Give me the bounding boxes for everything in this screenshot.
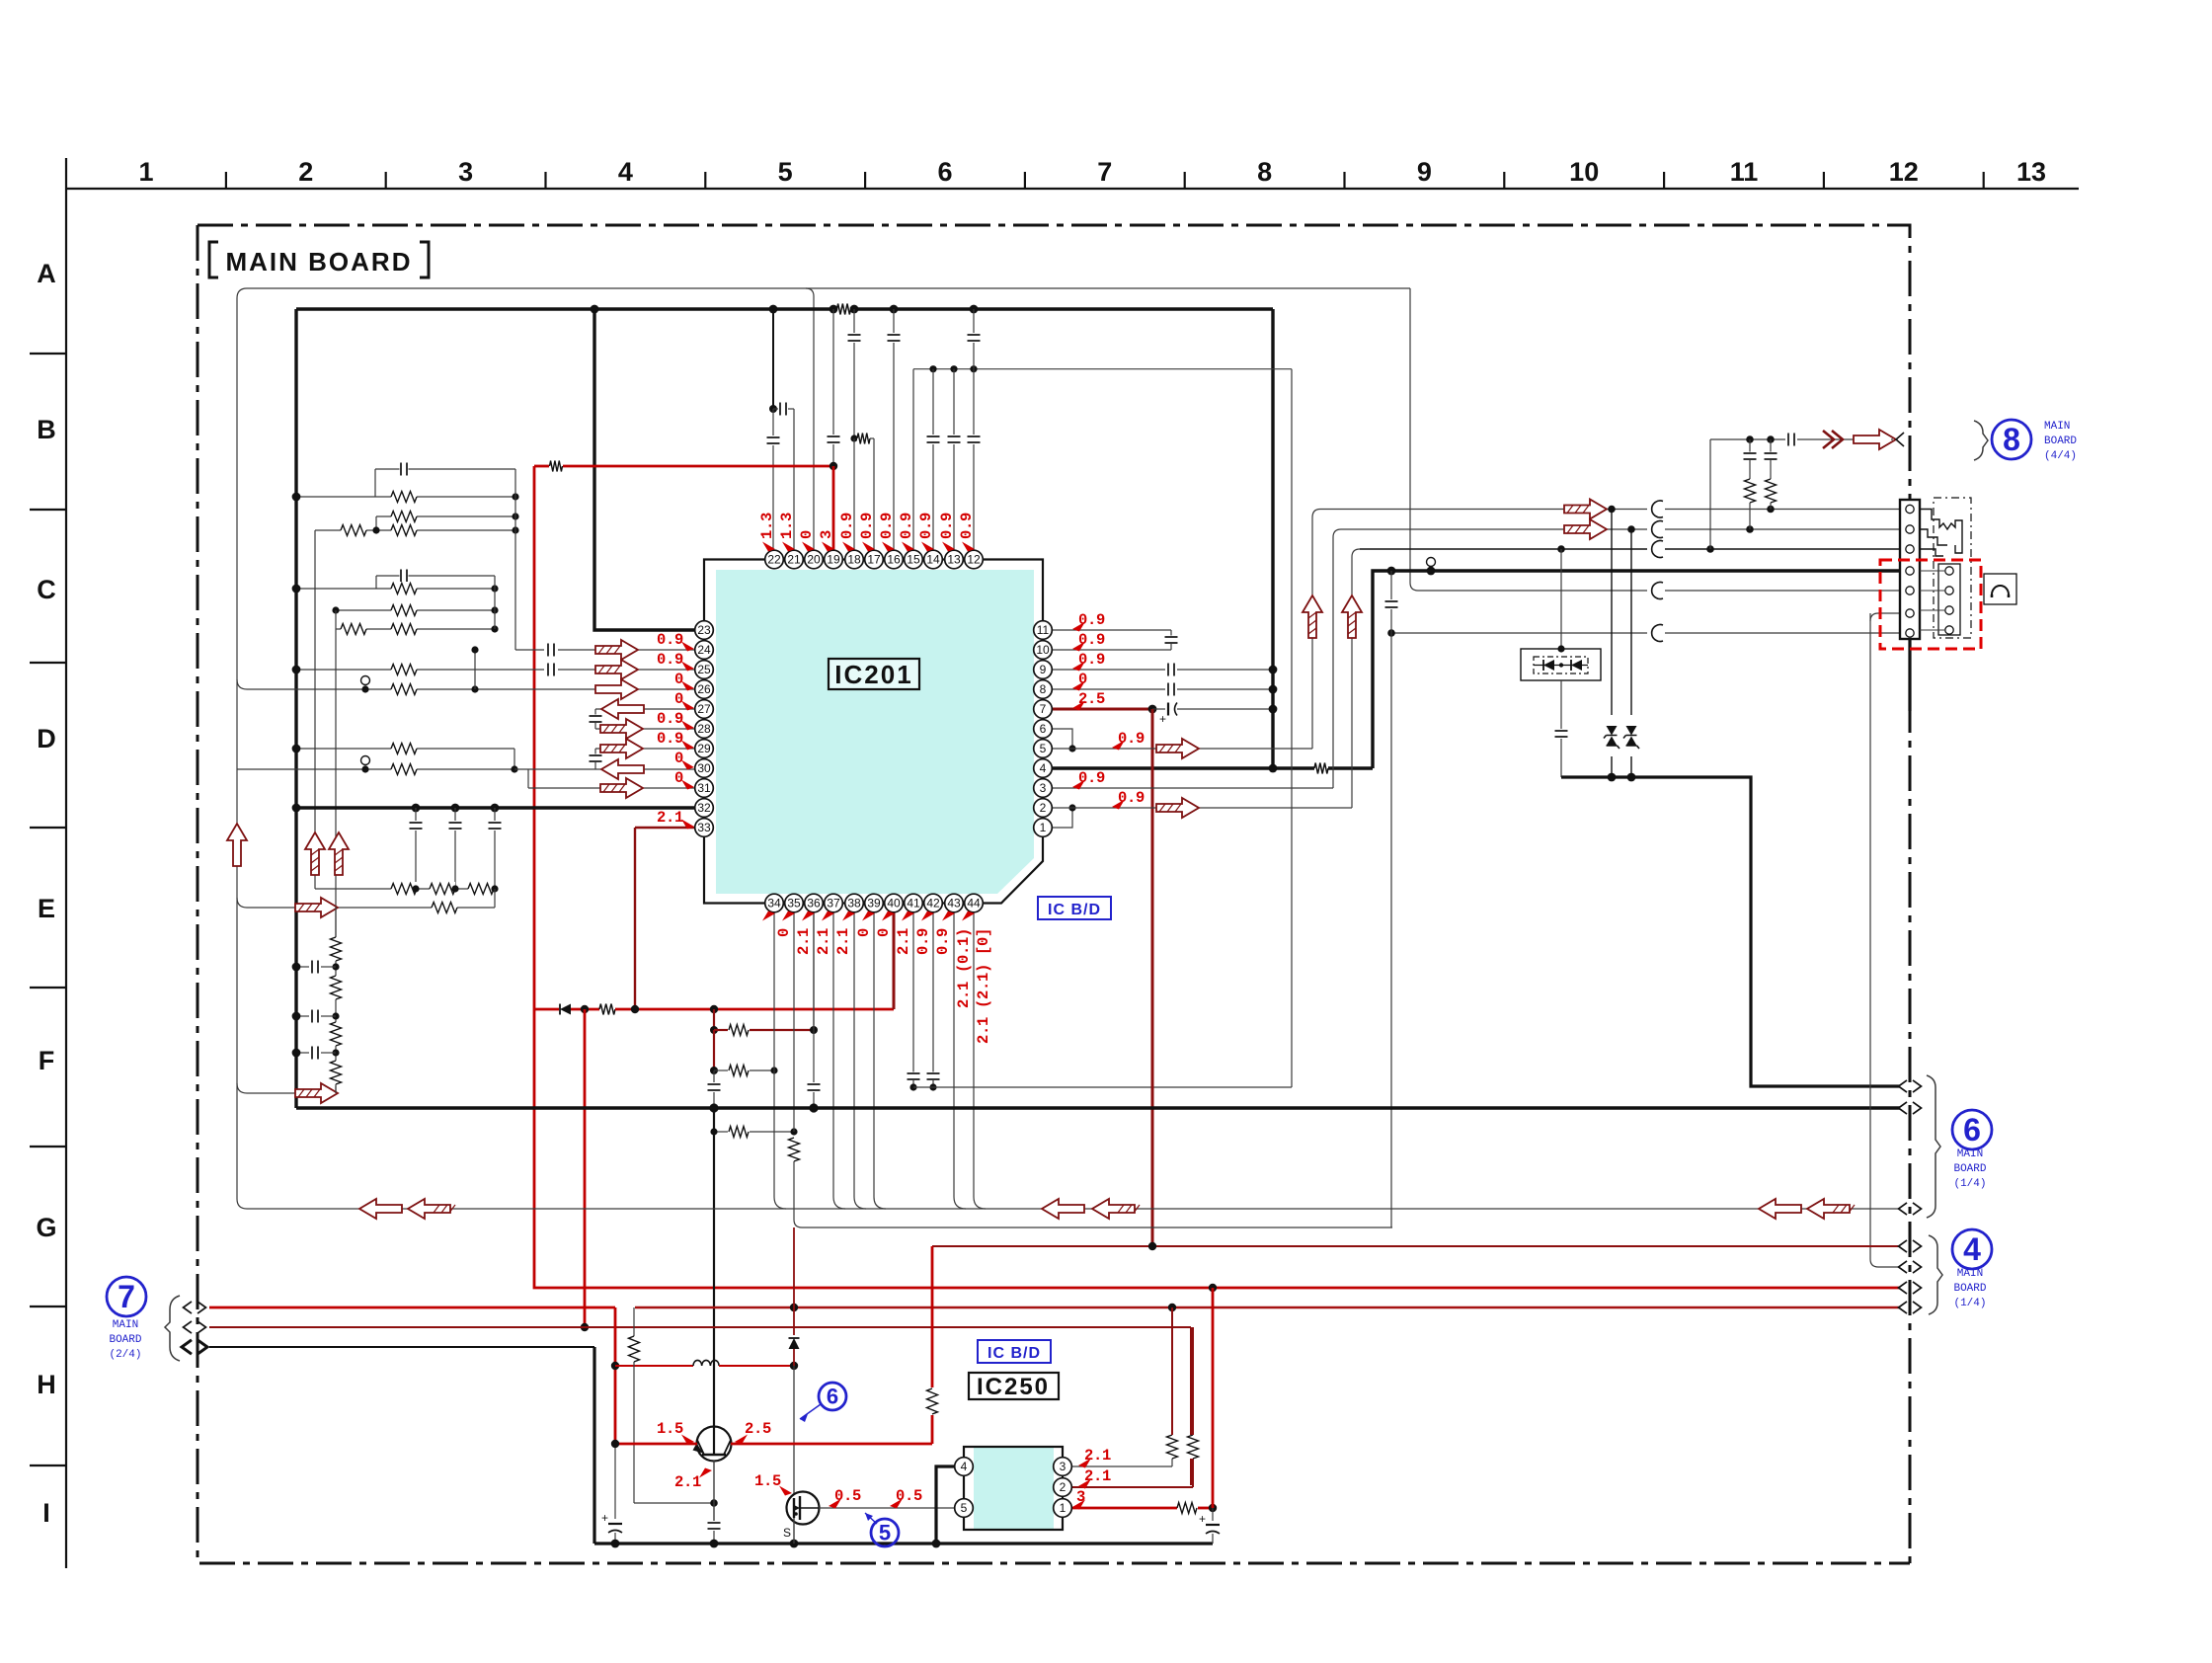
diode D (left) xyxy=(560,1004,571,1015)
IC201 label xyxy=(829,659,919,689)
pin30 row xyxy=(237,768,514,770)
arrow pin31 xyxy=(600,778,643,798)
res row y1084 xyxy=(714,1069,728,1071)
wire pin19 column thin top xyxy=(832,309,834,435)
svg-text:12: 12 xyxy=(967,553,981,567)
x1350 vertical xyxy=(1333,529,1341,788)
svg-text:IC201: IC201 xyxy=(834,660,912,689)
red x541 corner to row1304 xyxy=(534,1009,1900,1288)
links connector to contacts xyxy=(1920,570,1944,572)
svg-text:0.9: 0.9 xyxy=(914,928,932,955)
res row y900 xyxy=(315,888,495,890)
svg-text:10: 10 xyxy=(1036,643,1050,657)
MOSFET Q2 xyxy=(787,1492,820,1525)
svg-text:0.9: 0.9 xyxy=(838,513,856,539)
svg-text:7: 7 xyxy=(118,1279,135,1314)
row2 corner down to IC250 pin2 xyxy=(1190,1327,1192,1485)
jack dash-dot box xyxy=(1934,498,1971,638)
svg-text:24: 24 xyxy=(697,643,711,657)
wire thick top y313 xyxy=(296,307,837,310)
pin31 row xyxy=(527,769,529,788)
svg-text:20: 20 xyxy=(807,553,821,567)
svg-text:4: 4 xyxy=(1040,761,1047,775)
arrows G mid xyxy=(1042,1199,1084,1219)
svg-text:B: B xyxy=(37,415,56,444)
svg-text:2.1: 2.1 xyxy=(834,928,852,955)
wire pin16 column xyxy=(893,309,895,333)
pins41-42 columns caps xyxy=(912,903,914,1072)
wire pin13 column xyxy=(953,369,955,435)
svg-text:0.9: 0.9 xyxy=(917,513,935,539)
svg-text:17: 17 xyxy=(867,553,881,567)
svg-text:5: 5 xyxy=(961,1501,968,1515)
svg-text:0.9: 0.9 xyxy=(657,710,683,728)
pin11 wire xyxy=(1052,629,1171,631)
svg-text:0.9: 0.9 xyxy=(934,928,952,955)
line7 y641 xyxy=(1391,632,1647,634)
IC250 resistor above xyxy=(931,1245,933,1247)
arrow pin30 xyxy=(601,759,644,779)
svg-text:2.1: 2.1 xyxy=(657,809,683,827)
svg-text:0.9: 0.9 xyxy=(958,513,976,539)
group C res row y503 xyxy=(296,496,515,498)
G bus y1224 xyxy=(247,1208,1900,1210)
svg-text:32: 32 xyxy=(697,801,711,815)
svg-text:43: 43 xyxy=(947,897,961,911)
svg-text:30: 30 xyxy=(697,761,711,775)
x1369 vertical xyxy=(1352,549,1360,808)
svg-text:31: 31 xyxy=(697,781,711,795)
thick stub below connector xyxy=(1908,639,1911,711)
headphone icon xyxy=(1984,574,2016,604)
x1228 cap to rail xyxy=(1212,1508,1214,1521)
arrow pin5 xyxy=(1156,739,1199,758)
line6 y621 xyxy=(1870,613,1900,621)
svg-text:0.9: 0.9 xyxy=(898,513,915,539)
x642 resistor column xyxy=(633,1307,635,1337)
group D res row y618 xyxy=(336,609,495,611)
svg-text:MAIN: MAIN xyxy=(1957,1148,1983,1160)
svg-text:4: 4 xyxy=(1963,1231,1981,1267)
arrows G right xyxy=(1759,1199,1801,1219)
resistor y1022 xyxy=(599,1002,615,1016)
wire x501 vertical xyxy=(494,576,496,629)
base red wire xyxy=(615,1443,697,1446)
svg-text:29: 29 xyxy=(697,742,711,755)
wire pin18 column xyxy=(853,309,855,333)
svg-text:MAIN BOARD: MAIN BOARD xyxy=(226,247,413,277)
thick line4 y578 xyxy=(1387,567,1396,576)
pin27 row xyxy=(595,708,704,710)
svg-text:3: 3 xyxy=(1040,781,1047,795)
svg-text:A: A xyxy=(37,259,56,288)
wire x1428 vertical xyxy=(1410,288,1418,591)
pins37-39 columns to bus xyxy=(833,903,845,1209)
arrow pin27 xyxy=(601,699,644,719)
svg-text:5: 5 xyxy=(879,1521,891,1545)
col1772 cap res xyxy=(1749,439,1751,452)
x1228 red column xyxy=(1212,1288,1215,1508)
svg-text:G: G xyxy=(36,1213,56,1242)
svg-text:37: 37 xyxy=(827,897,840,911)
connector 7 crossings xyxy=(184,1302,193,1313)
pin29 row xyxy=(296,748,514,750)
inductor row xyxy=(615,1365,693,1367)
cap pins27-28 xyxy=(594,709,596,715)
svg-text:13: 13 xyxy=(2016,157,2046,187)
circled 5 with arrow xyxy=(871,1519,899,1546)
thick rail y787 xyxy=(1561,777,1900,1086)
IC201 body xyxy=(716,570,1034,894)
svg-text:2: 2 xyxy=(1040,801,1047,815)
group D res row y596 xyxy=(296,588,495,590)
row y1101 F xyxy=(913,1086,1292,1088)
svg-text:12: 12 xyxy=(1889,157,1919,187)
svg-text:25: 25 xyxy=(697,663,711,676)
connector 6 callout xyxy=(1927,1075,1940,1218)
connector7 row3 black xyxy=(209,1346,594,1348)
svg-text:F: F xyxy=(39,1046,55,1075)
wire branch to pin20 xyxy=(806,288,814,550)
pin25 row xyxy=(296,669,544,671)
pin2 row xyxy=(1052,807,1352,809)
circled 6 with arrow xyxy=(819,1383,846,1410)
connector7 row1 red xyxy=(209,1307,615,1309)
svg-text:34: 34 xyxy=(767,897,781,911)
pin35 column xyxy=(793,903,795,1132)
svg-text:11: 11 xyxy=(1730,157,1759,187)
wire thick pin4 row xyxy=(1043,766,1314,769)
svg-text:6: 6 xyxy=(827,1385,838,1409)
x723 column xyxy=(713,1009,715,1030)
E-F left ladder x340 xyxy=(335,907,337,937)
svg-text:10: 10 xyxy=(1569,157,1599,187)
red row y1262 xyxy=(932,1245,1900,1247)
emitter link y1522 xyxy=(634,1502,714,1504)
wire thick x602 to pin23 xyxy=(594,309,704,630)
svg-text:9: 9 xyxy=(1417,157,1432,187)
wire x522 vertical to pin24 row xyxy=(514,469,516,650)
pin6-5 stub xyxy=(1052,729,1072,749)
svg-text:BOARD: BOARD xyxy=(1953,1163,1986,1175)
res row y1043 red xyxy=(714,1029,728,1031)
connector 6 crossings xyxy=(1899,1080,1908,1092)
svg-text:S: S xyxy=(783,1526,791,1540)
connector7 row2 dark red xyxy=(209,1326,1191,1328)
wire pin14 column xyxy=(932,369,934,435)
arrows up x319 x340 xyxy=(305,832,325,875)
svg-text:0: 0 xyxy=(674,690,683,708)
arrow pin29 xyxy=(600,739,643,758)
svg-text:2.1: 2.1 xyxy=(895,928,912,955)
zener x1652 xyxy=(1630,529,1632,715)
bus2 y1243 xyxy=(802,1227,1392,1228)
pin7 red wire xyxy=(1052,708,1152,711)
wire x340 vertical xyxy=(335,610,337,942)
group D cap row y583 xyxy=(376,575,495,577)
svg-text:8: 8 xyxy=(2003,422,2020,457)
wire pin12 column xyxy=(973,309,975,333)
svg-text:2.1 (0.1): 2.1 (0.1) xyxy=(955,928,973,1008)
red x1167 down xyxy=(1151,709,1154,1246)
svg-text:2: 2 xyxy=(1060,1480,1066,1494)
svg-text:C: C xyxy=(37,575,56,604)
red dashed box xyxy=(1880,560,1981,649)
gate column x804 xyxy=(793,1366,795,1498)
x602 thick down to rail xyxy=(592,1347,595,1544)
red x592 down xyxy=(584,1009,587,1327)
svg-text:+: + xyxy=(601,1511,608,1525)
zener x1632 xyxy=(1611,510,1613,716)
svg-text:2.1: 2.1 xyxy=(795,928,813,955)
svg-text:18: 18 xyxy=(847,553,861,567)
pin24 row xyxy=(515,649,544,651)
svg-text:0: 0 xyxy=(775,928,793,937)
svg-text:0: 0 xyxy=(674,750,683,767)
svg-text:(1/4): (1/4) xyxy=(1953,1298,1986,1309)
IC250 pin3 wire xyxy=(1071,1465,1172,1467)
arrow up on x240 xyxy=(227,824,247,866)
row y919 with arrow xyxy=(237,898,495,908)
main board dash-dot border xyxy=(197,225,1910,1563)
inner contact rect xyxy=(1938,564,1960,635)
ruler row ticks xyxy=(30,353,66,355)
emitter down xyxy=(713,1461,715,1521)
line3 y556 xyxy=(1360,548,1647,550)
main board title xyxy=(209,242,218,277)
arrow up x1329 xyxy=(1303,595,1322,638)
red wire y472 row xyxy=(534,465,549,468)
svg-text:16: 16 xyxy=(887,553,901,567)
svg-text:E: E xyxy=(38,894,55,923)
pins43-44 columns to bus xyxy=(954,903,966,1209)
x623 lower cap xyxy=(614,1444,616,1519)
connector 8 callout xyxy=(1974,421,1988,460)
svg-text:8: 8 xyxy=(1040,682,1047,696)
caps under pin32 row xyxy=(415,808,417,821)
svg-text:MAIN: MAIN xyxy=(1957,1268,1983,1280)
resistor inline y313 xyxy=(837,302,851,316)
svg-text:(2/4): (2/4) xyxy=(109,1349,141,1361)
thick rail y1122 xyxy=(296,1106,1900,1109)
arrow pin2 xyxy=(1156,798,1199,818)
x623 red column xyxy=(614,1307,617,1444)
svg-text:22: 22 xyxy=(767,553,781,567)
emitter cap xyxy=(707,1522,721,1531)
svg-text:33: 33 xyxy=(697,821,711,834)
group D res row y637 xyxy=(336,628,495,630)
svg-text:27: 27 xyxy=(697,702,711,716)
svg-text:0: 0 xyxy=(674,671,683,688)
svg-text:36: 36 xyxy=(807,897,821,911)
svg-text:BOARD: BOARD xyxy=(109,1334,141,1346)
svg-text:0: 0 xyxy=(855,928,873,937)
IC250 pins xyxy=(955,1458,974,1476)
IC250 pin1 wire red xyxy=(1071,1507,1177,1510)
svg-text:1: 1 xyxy=(1040,821,1047,834)
svg-text:39: 39 xyxy=(867,897,881,911)
svg-text:3: 3 xyxy=(458,157,473,187)
svg-text:2.1: 2.1 xyxy=(815,928,832,955)
x1409 long down xyxy=(1390,633,1392,1227)
wire pin15 column xyxy=(912,369,914,550)
svg-text:9: 9 xyxy=(1040,663,1047,676)
svg-text:28: 28 xyxy=(697,722,711,736)
svg-text:IC B/D: IC B/D xyxy=(987,1345,1041,1362)
arrow pin24 xyxy=(595,640,638,660)
svg-text:44: 44 xyxy=(967,897,981,911)
dual diode box xyxy=(1521,649,1601,680)
caps x300-x340 ladder xyxy=(296,966,309,968)
wire thick x1390 up to y578 xyxy=(1373,571,1900,768)
svg-text:IC B/D: IC B/D xyxy=(1048,902,1101,918)
connector J (right) xyxy=(1900,500,1920,639)
wire x319 vertical xyxy=(314,530,316,889)
svg-text:I: I xyxy=(42,1498,50,1528)
svg-text:1: 1 xyxy=(1060,1501,1066,1515)
cap pins11-10 xyxy=(1170,630,1172,636)
svg-text:19: 19 xyxy=(827,553,840,567)
svg-text:MAIN: MAIN xyxy=(2044,421,2070,433)
x804 diode column xyxy=(793,1227,795,1335)
wire pin22 column xyxy=(772,309,774,409)
jack contacts xyxy=(1920,510,1962,554)
svg-text:0.9: 0.9 xyxy=(657,631,683,649)
arrow pin28 xyxy=(600,719,643,739)
collector red wire right xyxy=(731,1443,932,1446)
wire thick x300 left rail xyxy=(294,309,297,1108)
IC201 left pins 23-33 xyxy=(695,621,714,640)
svg-text:BOARD: BOARD xyxy=(1953,1283,1986,1295)
svg-text:0.9: 0.9 xyxy=(878,513,896,539)
svg-text:11: 11 xyxy=(1037,623,1050,637)
IC250 pin2 wire xyxy=(1071,1486,1193,1488)
svg-text:21: 21 xyxy=(787,553,801,567)
svg-text:6: 6 xyxy=(1963,1112,1981,1148)
svg-text:3: 3 xyxy=(1060,1460,1066,1473)
svg-text:7: 7 xyxy=(1097,157,1112,187)
IC B/D label (IC250) xyxy=(978,1340,1051,1363)
MOSFET source down xyxy=(793,1518,795,1544)
IC250 label xyxy=(969,1373,1059,1399)
red wire x541 down xyxy=(533,466,536,1009)
0.5 wire to IC250 pin5 xyxy=(819,1507,955,1509)
wire top thin y292 xyxy=(247,287,1410,289)
red wire pin19 drop xyxy=(832,466,835,550)
svg-text:2.5: 2.5 xyxy=(745,1420,771,1438)
top ruler line xyxy=(66,188,2079,190)
svg-text:4: 4 xyxy=(618,157,633,187)
svg-text:D: D xyxy=(37,724,56,753)
left ruler line xyxy=(65,158,67,1568)
x824 pin36 column xyxy=(813,903,815,1030)
svg-text:4: 4 xyxy=(961,1460,968,1473)
pin33 red wire xyxy=(635,827,704,829)
svg-text:5: 5 xyxy=(1040,742,1047,755)
capacitor pin21 link xyxy=(773,408,778,410)
red row y1022 xyxy=(534,1008,559,1011)
svg-text:42: 42 xyxy=(926,897,940,911)
IC201 bottom pins 34-44 xyxy=(765,894,784,912)
svg-text:+: + xyxy=(1159,712,1166,726)
svg-text:26: 26 xyxy=(697,682,711,696)
svg-text:8: 8 xyxy=(1257,157,1272,187)
svg-text:2: 2 xyxy=(298,157,313,187)
svg-text:0: 0 xyxy=(875,928,893,937)
res row y1146 xyxy=(714,1131,728,1133)
cap x1409 xyxy=(1390,571,1392,599)
pin9 wire with cap xyxy=(1052,669,1165,671)
connector8 wire y445 xyxy=(1710,438,1785,440)
IC B/D label (IC201) xyxy=(1038,897,1111,919)
pin5 row xyxy=(1052,748,1289,750)
connector 4 callout xyxy=(1929,1235,1942,1314)
wire pin17 column xyxy=(873,438,875,550)
svg-text:6: 6 xyxy=(1040,722,1047,736)
svg-text:41: 41 xyxy=(907,897,920,911)
svg-text:6: 6 xyxy=(937,157,952,187)
pin26 row xyxy=(237,679,704,689)
pin2-1 stub xyxy=(1052,808,1072,828)
svg-text:IC250: IC250 xyxy=(977,1374,1050,1400)
connector 4 crossings xyxy=(1899,1240,1908,1252)
pin32 thick row xyxy=(296,806,704,809)
line5 y598 xyxy=(1418,590,1647,592)
pin3 row xyxy=(1052,787,1333,789)
arrow up x1369 xyxy=(1342,595,1362,638)
diodes in box xyxy=(1534,665,1588,667)
svg-text:7: 7 xyxy=(1040,702,1047,716)
IC201 top pins 22-12 xyxy=(765,550,784,569)
x723 collector drop xyxy=(713,1108,715,1427)
row y1107 with arrow xyxy=(237,1083,336,1093)
IC250 pin4 wire thick xyxy=(936,1466,955,1544)
svg-text:+: + xyxy=(1199,1512,1206,1526)
line1 y515.5 xyxy=(1320,509,1647,511)
red pin40 column xyxy=(893,903,896,1009)
wire thick x1289 down xyxy=(1271,309,1274,768)
svg-text:MAIN: MAIN xyxy=(113,1319,138,1331)
x1894 vertical xyxy=(1869,613,1871,1259)
svg-text:38: 38 xyxy=(847,897,861,911)
svg-text:(4/4): (4/4) xyxy=(2044,450,2077,462)
wire y373 row xyxy=(913,368,1292,370)
IC250 body xyxy=(974,1448,1054,1529)
arrow pin26 xyxy=(595,679,638,699)
x1581 vertical xyxy=(1560,549,1562,649)
x784 pin34 column xyxy=(773,903,775,1070)
svg-text:2.1 (2.1) [0]: 2.1 (2.1) [0] xyxy=(975,928,992,1044)
cap pins29-30 xyxy=(594,749,596,754)
svg-text:15: 15 xyxy=(907,553,920,567)
svg-text:1.3: 1.3 xyxy=(778,513,796,539)
svg-text:BOARD: BOARD xyxy=(2044,436,2077,447)
arrows G left xyxy=(359,1199,402,1219)
transistor Q NPN xyxy=(697,1427,732,1462)
svg-text:0.9: 0.9 xyxy=(657,730,683,748)
x944 red column xyxy=(931,1246,934,1387)
junction dots y313 xyxy=(591,305,599,314)
svg-text:35: 35 xyxy=(787,897,801,911)
svg-text:(1/4): (1/4) xyxy=(1953,1178,1986,1190)
svg-text:1.3: 1.3 xyxy=(758,513,776,539)
line2 y536 xyxy=(1341,528,1647,530)
svg-text:23: 23 xyxy=(697,623,711,637)
col1793 cap res xyxy=(1770,439,1772,452)
svg-text:0.9: 0.9 xyxy=(858,513,876,539)
svg-text:3: 3 xyxy=(818,530,835,539)
svg-text:14: 14 xyxy=(926,553,940,567)
